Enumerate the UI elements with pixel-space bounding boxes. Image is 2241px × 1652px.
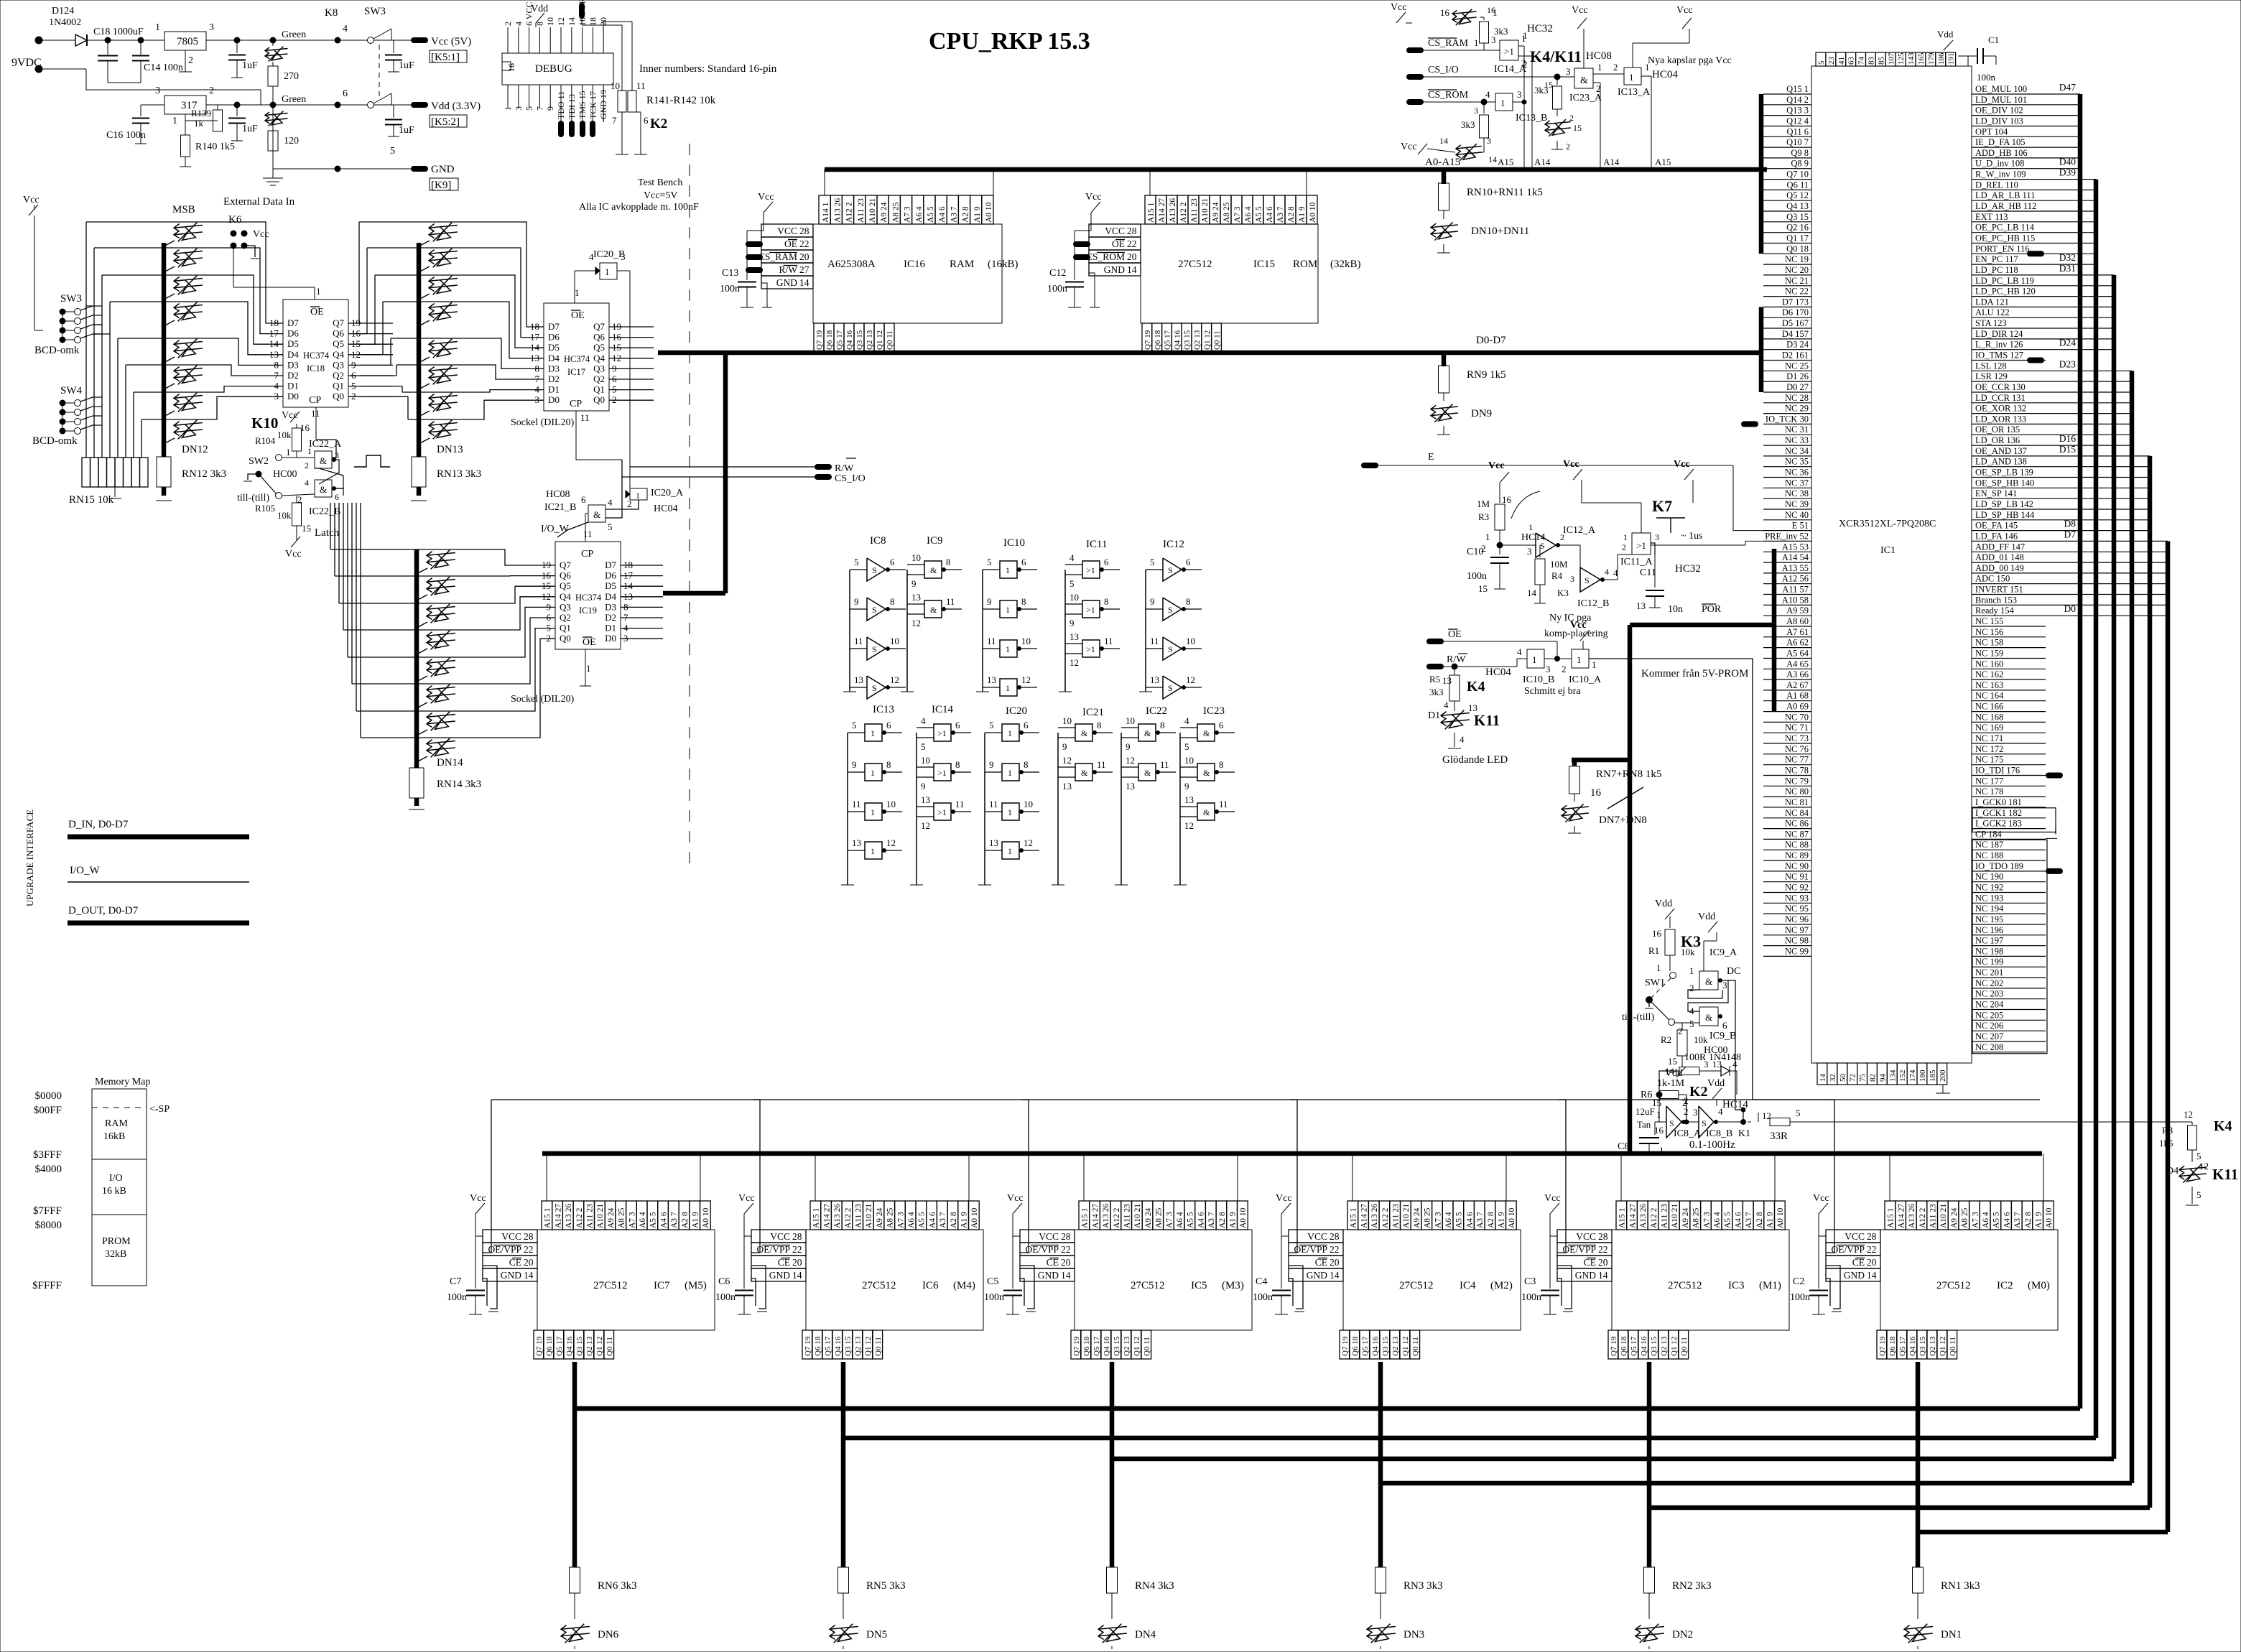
svg-text:Q2: Q2 bbox=[560, 612, 571, 623]
wire IC3 A0 riser bbox=[1774, 1154, 1776, 1201]
svg-text:(16kB): (16kB) bbox=[988, 259, 1019, 270]
svg-text:Q3: Q3 bbox=[593, 363, 605, 373]
resistor RN5 3k3 bbox=[838, 1567, 849, 1593]
bus D15-D8 vertical bbox=[2148, 456, 2153, 1508]
svg-text:A15: A15 bbox=[1655, 157, 1671, 167]
pin stub IC3 A9 24 bbox=[1679, 1201, 1690, 1230]
pin stub IC3 A13 26 bbox=[1637, 1201, 1648, 1230]
resistor cs_io 3k3 bbox=[1554, 74, 1560, 80]
gate IC9 unit 2 bbox=[924, 600, 942, 618]
svg-text:A7 3: A7 3 bbox=[628, 1212, 636, 1228]
svg-text:11: 11 bbox=[989, 799, 998, 809]
svg-text:RN4 3k3: RN4 3k3 bbox=[1135, 1580, 1174, 1592]
pin stub IC5 Q6 18 bbox=[1081, 1330, 1091, 1359]
svg-text:OE/VPP: OE/VPP bbox=[1562, 1244, 1596, 1255]
svg-text:Alla IC avkopplade m. 100nF: Alla IC avkopplade m. 100nF bbox=[579, 202, 699, 213]
svg-text:Q0: Q0 bbox=[333, 391, 344, 402]
wire bank3 row 4 bbox=[456, 607, 543, 657]
svg-text:7: 7 bbox=[534, 106, 544, 111]
svg-text:LD_XOR 133: LD_XOR 133 bbox=[1975, 414, 2026, 424]
wire IC23A to IC13A bbox=[1593, 73, 1624, 75]
svg-text:IO_TDI 176: IO_TDI 176 bbox=[1975, 766, 2020, 776]
svg-text:A0 10: A0 10 bbox=[970, 1207, 979, 1228]
gate IC12 unit 3 bbox=[1163, 637, 1182, 660]
resistor 120 bbox=[272, 126, 274, 131]
bus D vertical to IC19 bbox=[723, 353, 728, 593]
svg-text:LD_PC_LB 119: LD_PC_LB 119 bbox=[1975, 276, 2034, 286]
pin stub IC16 A3 7 bbox=[947, 195, 958, 224]
pin IC3 VCC 28 bbox=[1557, 1230, 1612, 1243]
svg-text:9: 9 bbox=[1150, 596, 1155, 607]
svg-text:NC 70: NC 70 bbox=[1785, 712, 1809, 722]
wire IC23A pin2 A14 tap bbox=[1593, 82, 1600, 83]
svg-text:A1 9: A1 9 bbox=[960, 1212, 969, 1228]
pin stub IC2 A3 7 bbox=[2011, 1201, 2022, 1230]
svg-text:3: 3 bbox=[1693, 1107, 1698, 1118]
svg-text:NC 76: NC 76 bbox=[1785, 744, 1809, 754]
IC EPROM IC7 27C512 body bbox=[537, 1230, 715, 1330]
pin stub IC4 Q4 16 bbox=[1370, 1330, 1380, 1359]
pin stub IC2 A14 27 bbox=[1896, 1201, 1906, 1230]
svg-text:OE/VPP: OE/VPP bbox=[1294, 1244, 1327, 1255]
svg-text:1: 1 bbox=[1528, 522, 1533, 532]
svg-text:1: 1 bbox=[636, 491, 640, 501]
svg-text:RN3 3k3: RN3 3k3 bbox=[1403, 1580, 1443, 1592]
svg-text:Q10 7: Q10 7 bbox=[1786, 137, 1809, 147]
svg-text:3: 3 bbox=[1474, 106, 1478, 116]
svg-text:IC21: IC21 bbox=[1082, 707, 1104, 718]
capacitor C19 1uF bbox=[236, 40, 238, 53]
IC EPROM IC3 27C512 body bbox=[1612, 1230, 1789, 1330]
resistor RN3 3k3 bbox=[1375, 1567, 1386, 1593]
pin stub IC4 A8 25 bbox=[1421, 1201, 1432, 1230]
svg-text:1: 1 bbox=[1577, 654, 1582, 665]
svg-text:22: 22 bbox=[1598, 1244, 1608, 1255]
svg-text:4: 4 bbox=[1718, 1106, 1723, 1117]
svg-text:R6: R6 bbox=[1641, 1090, 1652, 1100]
svg-text:12: 12 bbox=[1184, 820, 1194, 831]
svg-text:10k: 10k bbox=[277, 510, 292, 521]
pin stub IC16 A5 5 bbox=[924, 195, 935, 224]
svg-text:D7: D7 bbox=[605, 560, 616, 570]
gate IC13_A HC04 bbox=[1624, 68, 1641, 85]
svg-text:$00FF: $00FF bbox=[34, 1105, 62, 1116]
svg-text:A14 27: A14 27 bbox=[1360, 1204, 1368, 1228]
svg-text:A2 8: A2 8 bbox=[681, 1212, 690, 1228]
svg-text:I/O_W: I/O_W bbox=[70, 865, 100, 876]
wire r141 gnd bbox=[621, 112, 623, 154]
svg-text:12: 12 bbox=[911, 618, 921, 628]
svg-text:NC 205: NC 205 bbox=[1975, 1010, 2003, 1020]
svg-text:10: 10 bbox=[921, 755, 930, 766]
svg-text:VCC: VCC bbox=[1576, 1231, 1596, 1242]
svg-text:NC 201: NC 201 bbox=[1975, 967, 2003, 978]
svg-text:12: 12 bbox=[2184, 1109, 2193, 1120]
svg-text:OE: OE bbox=[310, 307, 324, 317]
wire IC3 ce gnd bbox=[1557, 1266, 1572, 1309]
pin IC2 OE/VPP 22 bbox=[1826, 1243, 1880, 1256]
svg-text:NC 34: NC 34 bbox=[1785, 446, 1809, 456]
wire IC20_B out bbox=[617, 270, 630, 272]
resistor 270 bbox=[272, 62, 274, 66]
svg-text:D2: D2 bbox=[548, 373, 560, 384]
wire bank1 stair 0 bbox=[85, 222, 87, 458]
svg-text:191: 191 bbox=[1947, 53, 1956, 65]
svg-text:D4: D4 bbox=[287, 349, 299, 360]
svg-text:&: & bbox=[1705, 976, 1712, 987]
svg-text:Q1 12: Q1 12 bbox=[595, 1337, 604, 1356]
wire bank3 row 3 bbox=[456, 597, 543, 630]
bus width 16 slash bbox=[1607, 787, 1643, 809]
svg-text:L_R_inv 126: L_R_inv 126 bbox=[1975, 340, 2023, 350]
pin stubs IC1 bottom bbox=[1817, 1063, 1827, 1085]
pin IC7 CE 20 bbox=[483, 1256, 537, 1268]
svg-text:Q1 12: Q1 12 bbox=[1401, 1337, 1410, 1356]
svg-text:27C512: 27C512 bbox=[1936, 1280, 1971, 1291]
svg-text:Green: Green bbox=[282, 29, 306, 40]
svg-text:S: S bbox=[1540, 541, 1545, 551]
wire bank1 stair 7 bbox=[141, 419, 142, 458]
svg-text:22: 22 bbox=[792, 1244, 802, 1255]
svg-text:2: 2 bbox=[209, 85, 214, 96]
bus D47-D40 vertical bbox=[2078, 94, 2083, 1409]
pin stub IC15 A2 8 bbox=[1285, 195, 1296, 224]
svg-text:VCC: VCC bbox=[777, 226, 797, 236]
svg-text:33R: 33R bbox=[1770, 1131, 1788, 1142]
IC ROM IC15 27C512 body bbox=[1141, 224, 1318, 323]
wire IC5 A15 riser bbox=[1083, 1154, 1085, 1201]
svg-text:A0-A15: A0-A15 bbox=[1425, 157, 1460, 168]
svg-text:1k-1M: 1k-1M bbox=[1657, 1078, 1685, 1089]
svg-text:CS_I/O: CS_I/O bbox=[835, 473, 866, 484]
svg-text:6: 6 bbox=[1104, 557, 1109, 567]
svg-text:12: 12 bbox=[2199, 1161, 2209, 1171]
svg-text:4: 4 bbox=[305, 478, 309, 488]
svg-text:16kB: 16kB bbox=[103, 1131, 125, 1142]
svg-text:23: 23 bbox=[1827, 57, 1836, 65]
svg-text:Q2 13: Q2 13 bbox=[854, 1336, 863, 1356]
svg-text:125: 125 bbox=[1897, 52, 1906, 65]
wire IC14 input rail bbox=[916, 733, 917, 885]
pin IC6 CE 20 bbox=[751, 1256, 806, 1268]
pin stub IC6 Q4 16 bbox=[832, 1330, 843, 1359]
svg-text:11: 11 bbox=[955, 799, 965, 809]
wire bank3 row 1 bbox=[456, 575, 543, 577]
svg-text:15: 15 bbox=[302, 523, 311, 534]
svg-text:K3: K3 bbox=[1557, 588, 1569, 598]
svg-text:OE: OE bbox=[571, 310, 585, 321]
pin stub IC2 A6 4 bbox=[1980, 1201, 1990, 1230]
terminal CS_I/O flag mid bbox=[817, 474, 829, 480]
svg-text:OE_MUL 100: OE_MUL 100 bbox=[1975, 84, 2027, 94]
pin stub IC15 A13 26 bbox=[1166, 195, 1177, 224]
svg-text:Q1 12: Q1 12 bbox=[1939, 1337, 1947, 1356]
svg-text:NC 31: NC 31 bbox=[1785, 424, 1809, 435]
svg-text:IC11: IC11 bbox=[1086, 539, 1107, 550]
svg-text:RN13 3k3: RN13 3k3 bbox=[437, 468, 481, 480]
resistor R1 10k osc bbox=[1665, 929, 1675, 955]
svg-text:S: S bbox=[872, 605, 877, 615]
svg-text:A8 25: A8 25 bbox=[1424, 1207, 1432, 1228]
svg-text:SW2: SW2 bbox=[249, 456, 269, 467]
svg-text:Q9 8: Q9 8 bbox=[1791, 148, 1809, 158]
svg-text:12: 12 bbox=[890, 674, 899, 685]
svg-text:VCC: VCC bbox=[1105, 226, 1125, 236]
svg-text:NC 91: NC 91 bbox=[1785, 872, 1809, 882]
IC IC19 HC374 body bbox=[555, 542, 621, 649]
svg-text:Q4 16: Q4 16 bbox=[834, 1336, 843, 1356]
resistor R141 bbox=[618, 91, 626, 112]
svg-text:2: 2 bbox=[1684, 1095, 1689, 1106]
svg-text:1k: 1k bbox=[194, 118, 204, 129]
pin stub IC16 Q3 15 bbox=[854, 323, 864, 353]
svg-text:Vcc: Vcc bbox=[1813, 1193, 1829, 1204]
svg-text:3k3: 3k3 bbox=[1461, 119, 1475, 130]
svg-text:Q0: Q0 bbox=[593, 394, 605, 405]
svg-text:A12 56: A12 56 bbox=[1782, 574, 1809, 584]
pin stub IC2 A12 2 bbox=[1916, 1201, 1927, 1230]
svg-text:R_W_inv 109: R_W_inv 109 bbox=[1975, 170, 2026, 180]
svg-text:HC04: HC04 bbox=[1652, 69, 1678, 80]
capacitor out2 1uF bbox=[393, 105, 394, 118]
wire to regulators bbox=[108, 40, 164, 41]
svg-text:1: 1 bbox=[1008, 728, 1012, 738]
svg-text:14: 14 bbox=[567, 17, 577, 26]
svg-text:16: 16 bbox=[1440, 7, 1450, 18]
svg-text:A14: A14 bbox=[1534, 157, 1551, 167]
pin stub IC3 Q6 18 bbox=[1618, 1330, 1628, 1359]
svg-text:5: 5 bbox=[1817, 60, 1826, 65]
svg-text:Q4 16: Q4 16 bbox=[1173, 330, 1182, 350]
pin stub IC2 A0 10 bbox=[2043, 1201, 2054, 1230]
svg-text:107: 107 bbox=[1887, 52, 1896, 65]
bus IC2 byte vertical bbox=[1916, 1362, 1921, 1567]
diode network DN14 led4 bbox=[427, 661, 455, 664]
wire IC13B out bbox=[1513, 101, 1524, 103]
wire dashed separator bbox=[689, 144, 690, 873]
diode network DN13 led7 bbox=[429, 423, 458, 426]
svg-text:15: 15 bbox=[1478, 583, 1488, 594]
svg-text:D1: D1 bbox=[1428, 710, 1440, 721]
svg-text:13: 13 bbox=[1184, 794, 1194, 805]
bus A vertical to CPLD A rows bbox=[1772, 549, 1777, 711]
bus IC1 D7-D0 vertical bbox=[1759, 307, 1764, 392]
svg-text:Q7 19: Q7 19 bbox=[804, 1336, 812, 1356]
IC EPROM IC4 27C512 body bbox=[1343, 1230, 1521, 1330]
svg-text:PROM: PROM bbox=[102, 1236, 131, 1247]
pin stub IC16 A10 21 bbox=[866, 195, 877, 224]
pin stub IC16 A11 23 bbox=[854, 195, 866, 224]
svg-text:K1: K1 bbox=[1738, 1128, 1750, 1139]
svg-text:Vcc: Vcc bbox=[1391, 2, 1407, 13]
svg-text:Vcc: Vcc bbox=[282, 410, 298, 421]
svg-text:27C512: 27C512 bbox=[1178, 259, 1212, 270]
svg-text:Vdd: Vdd bbox=[531, 4, 548, 14]
svg-text:I_GCK0 181: I_GCK0 181 bbox=[1975, 797, 2022, 807]
svg-text:C2: C2 bbox=[1793, 1276, 1804, 1287]
svg-text:Vcc: Vcc bbox=[1401, 141, 1417, 152]
pin stub IC4 Q2 13 bbox=[1390, 1330, 1400, 1359]
svg-text:0.1-100Hz: 0.1-100Hz bbox=[1689, 1139, 1735, 1151]
pin stub IC7 Q0 11 bbox=[604, 1330, 614, 1359]
diode network DN14 led5 bbox=[427, 687, 455, 690]
gate IC8 unit 3 bbox=[867, 637, 886, 660]
svg-text:5: 5 bbox=[854, 557, 859, 567]
svg-text:INVERT 151: INVERT 151 bbox=[1975, 585, 2023, 595]
svg-text:4: 4 bbox=[1070, 552, 1075, 563]
svg-text:A13 26: A13 26 bbox=[1169, 198, 1177, 223]
svg-text:TCK 17: TCK 17 bbox=[588, 91, 598, 119]
svg-text:A3 7: A3 7 bbox=[1476, 1212, 1485, 1228]
svg-text:OE_OR 135: OE_OR 135 bbox=[1975, 424, 2020, 435]
svg-text:A5 64: A5 64 bbox=[1786, 649, 1809, 659]
svg-text:Q3 15: Q3 15 bbox=[1650, 1336, 1658, 1356]
svg-text:Q2 13: Q2 13 bbox=[1660, 1336, 1669, 1356]
wire gnd19 stub bbox=[603, 109, 604, 122]
svg-text:A15 1: A15 1 bbox=[1147, 202, 1156, 223]
pin stub IC2 Q4 16 bbox=[1907, 1330, 1917, 1359]
pin stub IC3 Q4 16 bbox=[1638, 1330, 1648, 1359]
svg-text:S: S bbox=[1702, 1118, 1707, 1128]
wire gnd to terminal bbox=[273, 168, 413, 170]
svg-text:7805: 7805 bbox=[177, 36, 198, 47]
svg-text:IC11_A: IC11_A bbox=[1620, 557, 1653, 567]
svg-text:27C512: 27C512 bbox=[593, 1280, 628, 1291]
svg-text:&: & bbox=[1081, 728, 1088, 738]
svg-text:>1: >1 bbox=[1636, 540, 1646, 551]
svg-text:>1: >1 bbox=[937, 807, 947, 817]
svg-text:27C512: 27C512 bbox=[1399, 1280, 1434, 1291]
svg-text:A9 24: A9 24 bbox=[880, 202, 888, 223]
wire 9V plus bbox=[39, 40, 75, 41]
diode network DN13 led5 bbox=[429, 368, 458, 371]
svg-text:R140 1k5: R140 1k5 bbox=[195, 141, 235, 152]
pin IC6 OE/VPP 22 bbox=[751, 1243, 806, 1256]
terminal CS_ROM flag bbox=[1409, 99, 1421, 105]
wire IC9 input rail bbox=[906, 570, 908, 692]
svg-text:ADD_01 148: ADD_01 148 bbox=[1975, 552, 2024, 562]
svg-text:13: 13 bbox=[987, 674, 996, 685]
pin stub IC2 Q7 19 bbox=[1877, 1330, 1887, 1359]
pin stub IC16 A2 8 bbox=[958, 195, 970, 224]
svg-text:A3 7: A3 7 bbox=[670, 1212, 679, 1228]
svg-text:6: 6 bbox=[955, 720, 960, 730]
svg-text:S: S bbox=[872, 565, 877, 575]
svg-text:Vcc (5V): Vcc (5V) bbox=[431, 36, 471, 47]
terminal RW flag bbox=[1429, 664, 1441, 669]
gate IC13_B bbox=[1495, 93, 1513, 111]
svg-text:A15 1: A15 1 bbox=[1618, 1207, 1627, 1228]
svg-text:BCD-omk: BCD-omk bbox=[34, 345, 80, 356]
terminal IO_TDI bbox=[2049, 773, 2060, 779]
pin stub IC16 A9 24 bbox=[877, 195, 888, 224]
svg-text:22: 22 bbox=[1330, 1244, 1340, 1255]
svg-text:Q3: Q3 bbox=[333, 359, 344, 370]
pin stub IC16 Q1 12 bbox=[874, 323, 884, 353]
svg-text:A11 23: A11 23 bbox=[1190, 198, 1199, 223]
svg-text:IC13: IC13 bbox=[873, 704, 894, 715]
svg-text:LDA 121: LDA 121 bbox=[1975, 297, 2009, 307]
svg-text:74: 74 bbox=[1857, 57, 1866, 65]
svg-text:Q4 16: Q4 16 bbox=[845, 330, 854, 350]
capacitor C14 100n bbox=[140, 40, 141, 55]
svg-text:Q7 19: Q7 19 bbox=[815, 330, 824, 350]
svg-text:Q6 18: Q6 18 bbox=[1351, 1336, 1360, 1356]
svg-text:14: 14 bbox=[524, 1270, 534, 1281]
svg-text:A7 3: A7 3 bbox=[1165, 1212, 1174, 1228]
svg-text:IC10: IC10 bbox=[1003, 537, 1025, 549]
wire IC8A to IC8B bbox=[1681, 1121, 1699, 1123]
pin stub IC6 A13 26 bbox=[831, 1201, 842, 1230]
diode network DN12 led2 bbox=[174, 279, 203, 282]
svg-text:A7 3: A7 3 bbox=[1971, 1212, 1980, 1228]
svg-text:5: 5 bbox=[921, 741, 926, 752]
svg-text:D1: D1 bbox=[605, 623, 616, 634]
svg-text:32kB: 32kB bbox=[105, 1249, 126, 1260]
svg-text:S: S bbox=[1168, 644, 1173, 654]
svg-text:180: 180 bbox=[1918, 1069, 1927, 1082]
pin stub IC7 A7 3 bbox=[626, 1201, 637, 1230]
svg-text:LD_PC_HB 120: LD_PC_HB 120 bbox=[1975, 287, 2036, 297]
svg-text:20: 20 bbox=[1867, 1257, 1877, 1268]
diode network DN2 bbox=[1648, 1593, 1650, 1619]
svg-text:D3: D3 bbox=[605, 601, 616, 612]
svg-text:A15 1: A15 1 bbox=[1887, 1207, 1896, 1228]
svg-text:D3: D3 bbox=[548, 363, 560, 373]
wire IC12A out bbox=[1556, 544, 1580, 546]
wire bank1 stair 3 bbox=[109, 302, 111, 458]
svg-text:4: 4 bbox=[1605, 567, 1609, 577]
svg-text:IC22_A: IC22_A bbox=[309, 439, 342, 450]
svg-text:1: 1 bbox=[316, 286, 321, 297]
svg-text:A4 65: A4 65 bbox=[1786, 659, 1809, 669]
svg-text:I/O: I/O bbox=[109, 1173, 123, 1184]
svg-text:&: & bbox=[593, 509, 600, 520]
svg-text:A10 21: A10 21 bbox=[596, 1204, 605, 1228]
svg-text:CE: CE bbox=[778, 1257, 790, 1268]
svg-text:Vdd: Vdd bbox=[1707, 1078, 1725, 1089]
pin IC6 GND 14 bbox=[751, 1268, 806, 1281]
wire k7 node bbox=[1500, 544, 1536, 546]
svg-text:9: 9 bbox=[989, 759, 994, 770]
svg-text:3k3: 3k3 bbox=[1494, 26, 1508, 37]
svg-text:LD_OR 136: LD_OR 136 bbox=[1975, 435, 2020, 445]
gate IC23 unit 3 bbox=[1197, 803, 1215, 820]
svg-text:R4: R4 bbox=[1551, 570, 1563, 581]
svg-text:BCD-omk: BCD-omk bbox=[32, 435, 78, 447]
pin IC7 VCC 28 bbox=[483, 1230, 537, 1243]
svg-text:DN5: DN5 bbox=[866, 1629, 887, 1641]
svg-text:Q2 13: Q2 13 bbox=[585, 1336, 594, 1356]
pin stub IC3 A4 6 bbox=[1732, 1201, 1743, 1230]
svg-text:Q14 2: Q14 2 bbox=[1786, 95, 1809, 105]
svg-text:13: 13 bbox=[852, 837, 861, 848]
svg-text:4: 4 bbox=[1444, 700, 1449, 710]
bus IC1 Q15-Q0 vertical bbox=[1759, 94, 1764, 254]
svg-text:Q6 18: Q6 18 bbox=[814, 1336, 822, 1356]
pin stub IC6 A7 3 bbox=[895, 1201, 906, 1230]
svg-text:143: 143 bbox=[1907, 52, 1916, 65]
svg-text:A8 25: A8 25 bbox=[891, 202, 900, 223]
svg-text:IC7: IC7 bbox=[654, 1280, 670, 1291]
svg-text:11: 11 bbox=[946, 596, 955, 607]
svg-text:K7: K7 bbox=[1652, 497, 1672, 515]
svg-text:Q0 18: Q0 18 bbox=[1786, 243, 1809, 254]
svg-text:Q5 17: Q5 17 bbox=[1164, 330, 1172, 350]
svg-text:28: 28 bbox=[1867, 1231, 1877, 1242]
svg-text:13: 13 bbox=[1062, 781, 1072, 792]
svg-text:D0 27: D0 27 bbox=[1786, 382, 1809, 392]
